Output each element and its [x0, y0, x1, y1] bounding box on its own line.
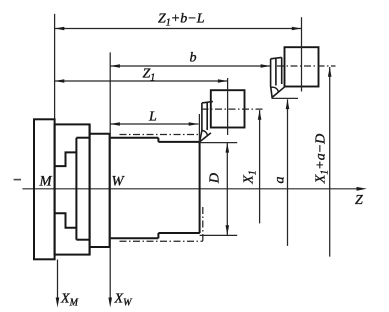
L dimension extension line above tool vertex — [198, 114, 200, 142]
Z1+b-L right arrowhead — [292, 27, 302, 31]
workpiece small cylinder D — [158, 142, 199, 233]
workpiece step face — [157, 138, 159, 239]
D top arrowhead — [226, 143, 230, 153]
left tool nose arc — [202, 131, 208, 136]
D bottom arrowhead — [226, 225, 230, 235]
svg-text:W: W — [112, 174, 126, 190]
left tool post block — [211, 90, 245, 127]
left tool blade — [200, 102, 213, 142]
svg-text:XW: XW — [114, 292, 134, 309]
dimension X1 line — [259, 110, 261, 223]
chuck back plate M — [34, 119, 55, 259]
right tool nose arc — [271, 87, 278, 92]
svg-text:Z: Z — [355, 193, 363, 208]
left tool tip baseline / D top extension — [200, 142, 238, 144]
svg-text:X1+a−D: X1+a−D — [314, 134, 331, 185]
X_W axis arrowhead — [108, 298, 112, 308]
X_M axis arrowhead — [56, 298, 60, 308]
L left arrowhead — [110, 122, 120, 126]
W axis extension line — [109, 52, 111, 298]
jaw upper step 3 surface — [76, 137, 89, 139]
stock old end face dash-dot — [202, 207, 204, 241]
dimension a line — [287, 99, 289, 246]
dimension X1+a-D line — [329, 67, 331, 257]
jaw lower step 3 surface — [76, 239, 89, 241]
svg-text:b: b — [190, 51, 197, 66]
chuck body — [55, 124, 90, 254]
X1+a-D top arrowhead — [328, 67, 332, 77]
right tool post center vertical line — [301, 17, 303, 91]
left tool post center dash-dot — [202, 108, 264, 110]
D bottom extension line — [200, 234, 238, 236]
stock outline dash-dot bottom — [120, 240, 203, 242]
dimension Z1+b-L line — [55, 28, 302, 30]
svg-text:D: D — [208, 173, 223, 184]
L right arrowhead — [189, 122, 199, 126]
svg-text:Z1: Z1 — [143, 67, 156, 84]
Z axis arrowhead — [357, 187, 367, 191]
svg-text:L: L — [148, 110, 157, 125]
X1 top arrowhead — [258, 110, 262, 120]
stock outline dash-dot top — [120, 134, 200, 136]
svg-text:XM: XM — [60, 292, 79, 309]
dimension b line — [110, 65, 270, 67]
dimension L line — [110, 123, 198, 125]
Z1 right arrowhead — [218, 79, 228, 83]
left tool post center vertical line — [227, 78, 229, 135]
workpiece end face — [199, 142, 201, 233]
right tool post center dash-dot — [277, 65, 336, 67]
M axis extension line — [54, 14, 56, 120]
svg-text:M: M — [39, 174, 53, 190]
workpiece big cylinder — [110, 138, 159, 239]
a top arrowhead — [286, 99, 290, 109]
b left arrowhead — [110, 64, 120, 68]
svg-text:Z1+b−L: Z1+b−L — [158, 12, 205, 29]
Z axis centerline — [22, 188, 357, 190]
dimension Z1 line — [55, 80, 228, 82]
jaw front block — [90, 124, 110, 254]
right tool blade — [271, 57, 286, 97]
dimension D line — [226, 143, 228, 235]
right tool tip baseline — [272, 97, 298, 99]
jaw upper step 1 — [55, 152, 77, 166]
stray dash mark left edge — [14, 179, 21, 181]
right tool post block — [285, 47, 319, 86]
X_M axis — [57, 260, 59, 299]
svg-text:X1: X1 — [242, 170, 259, 185]
svg-text:a: a — [273, 177, 288, 184]
Z1 left arrowhead — [55, 79, 65, 83]
chuck body face line — [75, 138, 77, 240]
jaw lower step 1 — [55, 213, 77, 228]
b right arrowhead — [261, 64, 271, 68]
Z1+b-L left arrowhead — [55, 27, 65, 31]
